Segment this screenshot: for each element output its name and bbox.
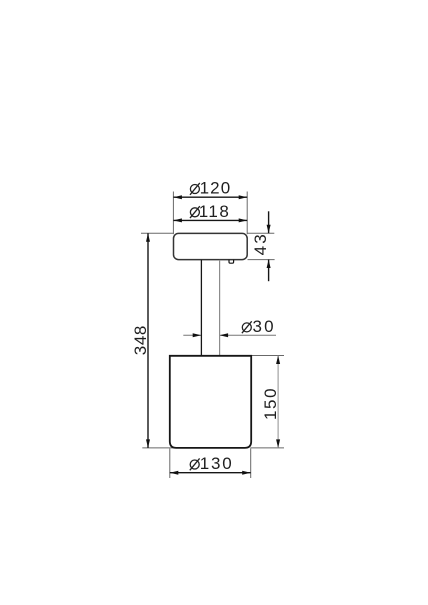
svg-text:130: 130 <box>200 454 234 473</box>
svg-text:120: 120 <box>200 179 232 198</box>
svg-text:43: 43 <box>251 232 270 255</box>
svg-text:118: 118 <box>199 202 231 221</box>
svg-text:150: 150 <box>261 387 280 420</box>
svg-text:30: 30 <box>253 317 276 336</box>
svg-text:348: 348 <box>131 325 150 355</box>
